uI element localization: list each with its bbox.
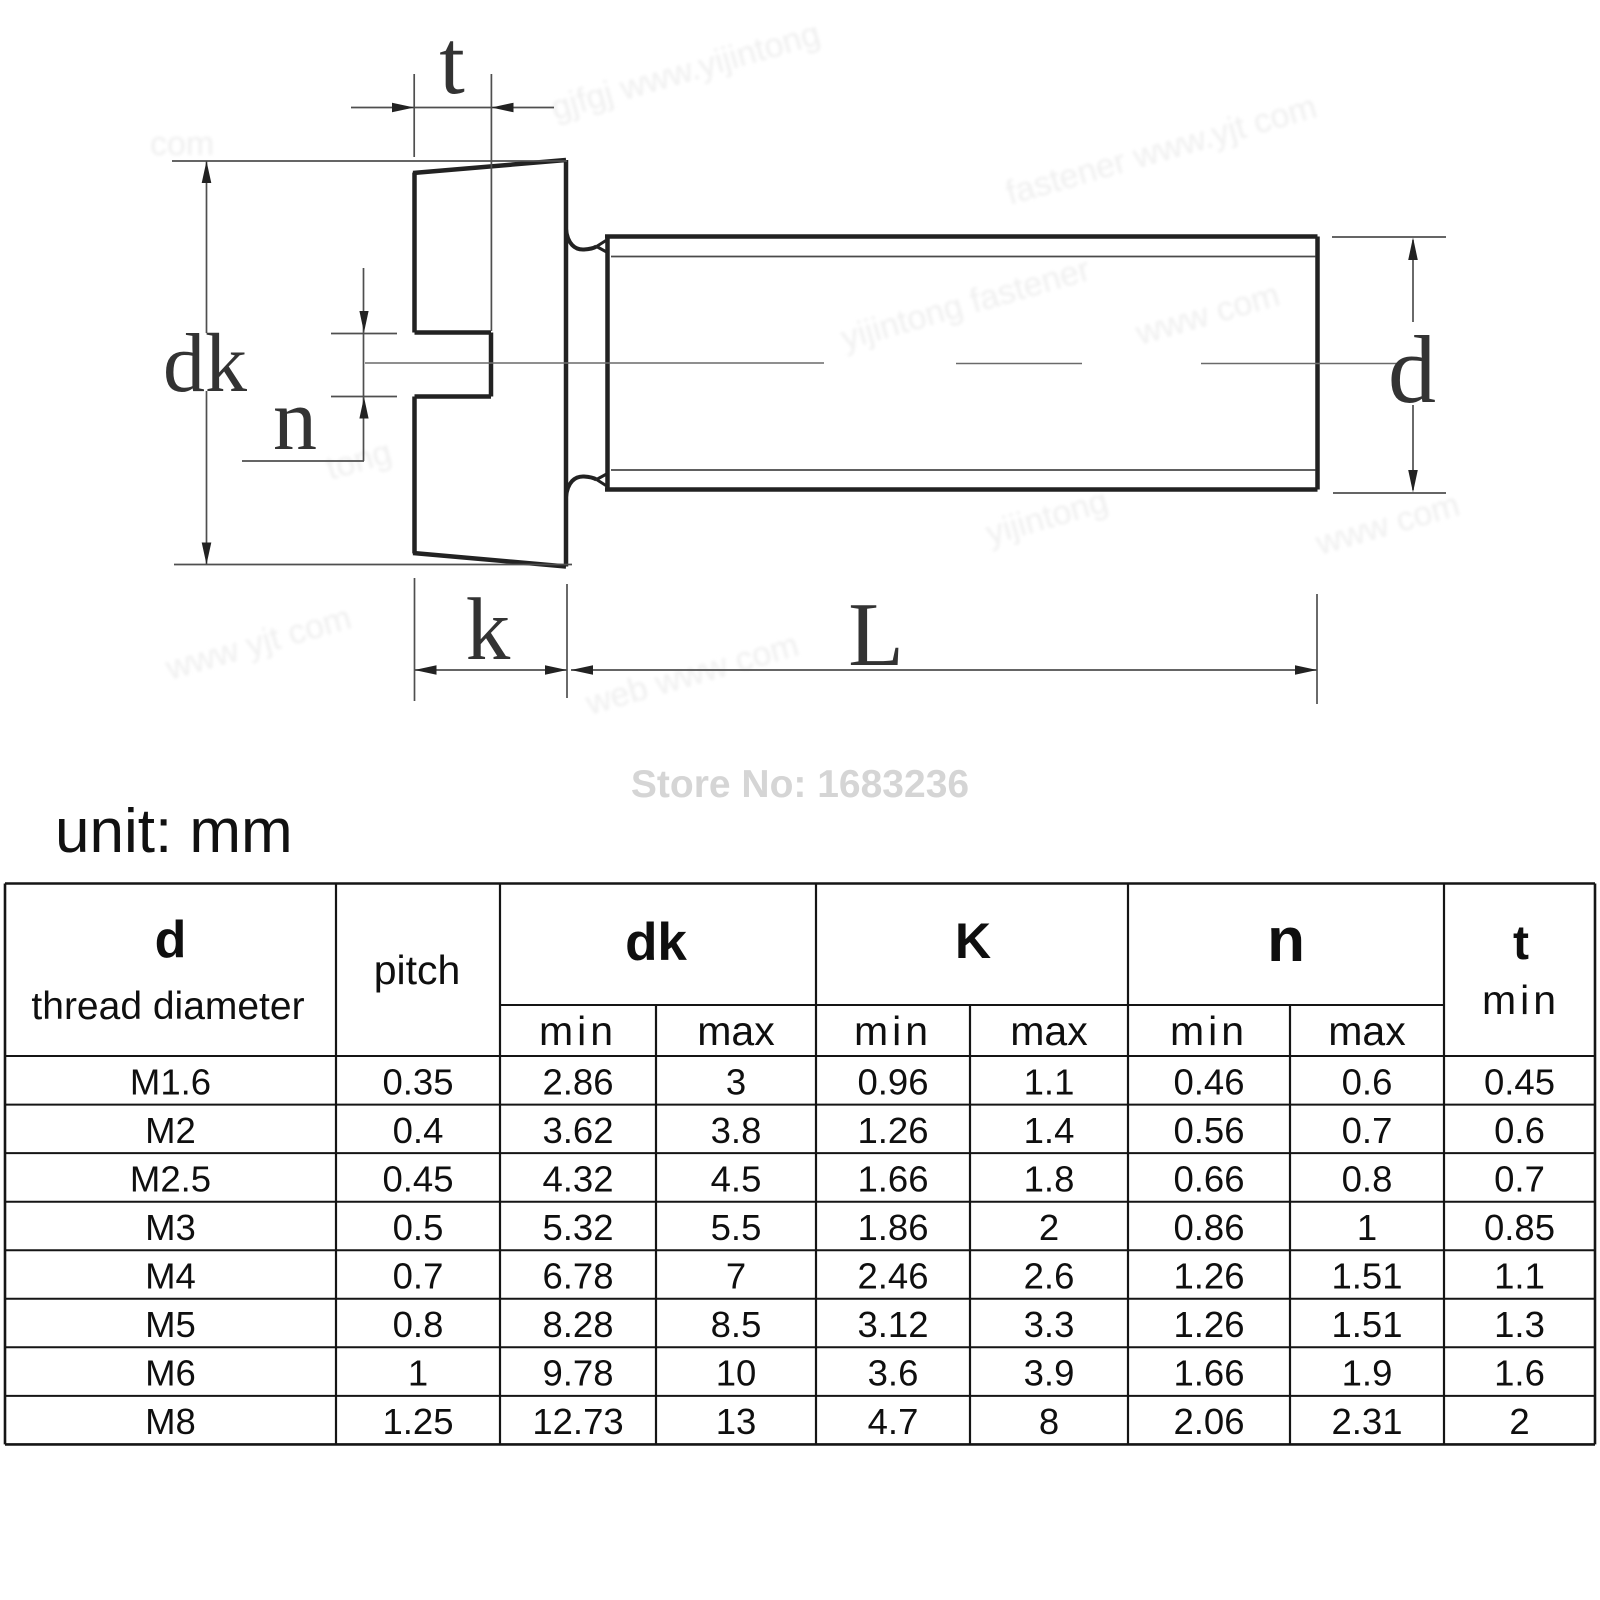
- arrowhead dk top: [202, 161, 212, 183]
- svg-text:com: com: [150, 125, 214, 163]
- svg-text:min: min: [854, 1008, 932, 1054]
- svg-text:2.31: 2.31: [1331, 1401, 1402, 1442]
- svg-text:1.1: 1.1: [1024, 1061, 1075, 1102]
- svg-text:13: 13: [716, 1401, 757, 1442]
- svg-text:1: 1: [408, 1353, 428, 1394]
- arrowhead n upper: [359, 311, 368, 333]
- svg-text:0.6: 0.6: [1494, 1110, 1545, 1151]
- svg-text:1.26: 1.26: [1173, 1256, 1244, 1297]
- shank outline: [605, 237, 1318, 490]
- svg-text:3.62: 3.62: [542, 1110, 613, 1151]
- svg-text:1.51: 1.51: [1331, 1256, 1402, 1297]
- svg-text:unit: mm: unit: mm: [55, 797, 293, 866]
- svg-text:max: max: [697, 1008, 775, 1054]
- svg-text:0.7: 0.7: [393, 1256, 444, 1297]
- arrowhead n lower: [359, 397, 368, 419]
- svg-text:dk: dk: [163, 317, 247, 410]
- dimension dk: [172, 161, 572, 565]
- neck fillet bottom: [566, 476, 597, 497]
- svg-text:M8: M8: [145, 1401, 196, 1442]
- arrowhead k left: [415, 665, 437, 675]
- chamfer top: [597, 240, 608, 253]
- svg-text:M3: M3: [145, 1207, 196, 1248]
- svg-text:M2: M2: [145, 1110, 196, 1151]
- svg-text:t: t: [439, 11, 465, 113]
- svg-text:t: t: [1513, 917, 1529, 970]
- svg-text:0.66: 0.66: [1173, 1159, 1244, 1200]
- svg-text:0.45: 0.45: [1484, 1061, 1555, 1102]
- svg-text:max: max: [1328, 1008, 1406, 1054]
- svg-text:8.28: 8.28: [542, 1304, 613, 1345]
- svg-text:0.7: 0.7: [1494, 1159, 1545, 1200]
- svg-text:K: K: [955, 913, 991, 969]
- svg-text:2: 2: [1509, 1401, 1529, 1442]
- arrowhead t left: [392, 103, 414, 113]
- svg-text:0.8: 0.8: [1342, 1159, 1393, 1200]
- svg-text:1.26: 1.26: [1173, 1304, 1244, 1345]
- svg-text:min: min: [1482, 977, 1560, 1023]
- svg-text:1.26: 1.26: [857, 1110, 928, 1151]
- arrowhead d bottom: [1408, 470, 1418, 493]
- svg-text:min: min: [539, 1008, 617, 1054]
- dimension t: [351, 74, 554, 331]
- svg-text:2.6: 2.6: [1024, 1256, 1075, 1297]
- neck fillet top: [566, 229, 597, 250]
- svg-text:8: 8: [1039, 1401, 1059, 1442]
- svg-text:1: 1: [1357, 1207, 1377, 1248]
- arrowhead t right: [491, 103, 513, 113]
- slot notch: [415, 330, 492, 335]
- svg-text:0.5: 0.5: [393, 1207, 444, 1248]
- svg-text:1.8: 1.8: [1024, 1159, 1075, 1200]
- svg-text:k: k: [466, 581, 511, 679]
- svg-text:dk: dk: [625, 913, 687, 972]
- svg-text:3.6: 3.6: [868, 1353, 919, 1394]
- dimension L: [571, 594, 1317, 704]
- svg-text:1.4: 1.4: [1024, 1110, 1075, 1151]
- svg-text:3.12: 3.12: [857, 1304, 928, 1345]
- svg-text:0.45: 0.45: [382, 1159, 453, 1200]
- svg-text:M4: M4: [145, 1256, 196, 1297]
- svg-text:1.66: 1.66: [857, 1159, 928, 1200]
- svg-text:Store No: 1683236: Store No: 1683236: [631, 763, 969, 806]
- arrowhead d top: [1408, 238, 1418, 261]
- svg-text:5.32: 5.32: [542, 1207, 613, 1248]
- thread lines: [611, 257, 1316, 471]
- svg-text:thread diameter: thread diameter: [31, 985, 304, 1028]
- svg-text:0.4: 0.4: [393, 1110, 444, 1151]
- dimension d: [1332, 237, 1446, 493]
- svg-text:M6: M6: [145, 1353, 196, 1394]
- arrowhead L right: [1295, 665, 1317, 675]
- svg-text:min: min: [1170, 1008, 1248, 1054]
- svg-text:0.56: 0.56: [1173, 1110, 1244, 1151]
- svg-text:3: 3: [726, 1061, 746, 1102]
- svg-text:6.78: 6.78: [542, 1256, 613, 1297]
- svg-text:L: L: [848, 584, 904, 685]
- svg-text:pitch: pitch: [374, 947, 461, 993]
- svg-text:3.9: 3.9: [1024, 1353, 1075, 1394]
- svg-text:4.5: 4.5: [711, 1159, 762, 1200]
- svg-text:1.25: 1.25: [382, 1401, 453, 1442]
- arrowhead k right: [545, 665, 567, 675]
- svg-text:5.5: 5.5: [711, 1207, 762, 1248]
- centerline: [365, 362, 1397, 365]
- svg-text:2.86: 2.86: [542, 1061, 613, 1102]
- svg-text:0.46: 0.46: [1173, 1061, 1244, 1102]
- head outline: [413, 160, 566, 567]
- svg-text:4.7: 4.7: [868, 1401, 919, 1442]
- svg-text:n: n: [273, 372, 317, 469]
- arrowhead dk bottom: [202, 543, 212, 565]
- svg-text:0.7: 0.7: [1342, 1110, 1393, 1151]
- svg-text:2.46: 2.46: [857, 1256, 928, 1297]
- arrowhead L left: [571, 665, 593, 675]
- svg-text:0.35: 0.35: [382, 1061, 453, 1102]
- svg-text:1.6: 1.6: [1494, 1353, 1545, 1394]
- dimension n: [242, 268, 397, 461]
- svg-text:0.86: 0.86: [1173, 1207, 1244, 1248]
- svg-text:0.96: 0.96: [857, 1061, 928, 1102]
- svg-text:7: 7: [726, 1256, 746, 1297]
- svg-text:d: d: [155, 911, 187, 969]
- svg-text:12.73: 12.73: [532, 1401, 623, 1442]
- svg-text:8.5: 8.5: [711, 1304, 762, 1345]
- svg-text:max: max: [1010, 1008, 1088, 1054]
- table header: [31, 906, 1560, 1054]
- svg-text:d: d: [1388, 316, 1436, 423]
- table grid: [5, 884, 1595, 1445]
- svg-text:3.8: 3.8: [711, 1110, 762, 1151]
- dimension k: [415, 578, 568, 701]
- svg-text:1.86: 1.86: [857, 1207, 928, 1248]
- svg-text:1.1: 1.1: [1494, 1256, 1545, 1297]
- svg-text:2: 2: [1039, 1207, 1059, 1248]
- svg-text:10: 10: [716, 1353, 757, 1394]
- svg-text:M5: M5: [145, 1304, 196, 1345]
- table data: [130, 1061, 1555, 1442]
- svg-text:0.85: 0.85: [1484, 1207, 1555, 1248]
- svg-text:0.6: 0.6: [1342, 1061, 1393, 1102]
- svg-text:1.66: 1.66: [1173, 1353, 1244, 1394]
- svg-text:n: n: [1267, 906, 1305, 975]
- svg-text:1.51: 1.51: [1331, 1304, 1402, 1345]
- svg-text:1.9: 1.9: [1342, 1353, 1393, 1394]
- svg-text:4.32: 4.32: [542, 1159, 613, 1200]
- chamfer bottom: [597, 474, 608, 487]
- svg-text:2.06: 2.06: [1173, 1401, 1244, 1442]
- screw drawing: [413, 160, 1318, 567]
- svg-text:9.78: 9.78: [542, 1353, 613, 1394]
- svg-text:1.3: 1.3: [1494, 1304, 1545, 1345]
- svg-text:3.3: 3.3: [1024, 1304, 1075, 1345]
- svg-text:0.8: 0.8: [393, 1304, 444, 1345]
- svg-text:M1.6: M1.6: [130, 1061, 211, 1102]
- svg-text:M2.5: M2.5: [130, 1159, 211, 1200]
